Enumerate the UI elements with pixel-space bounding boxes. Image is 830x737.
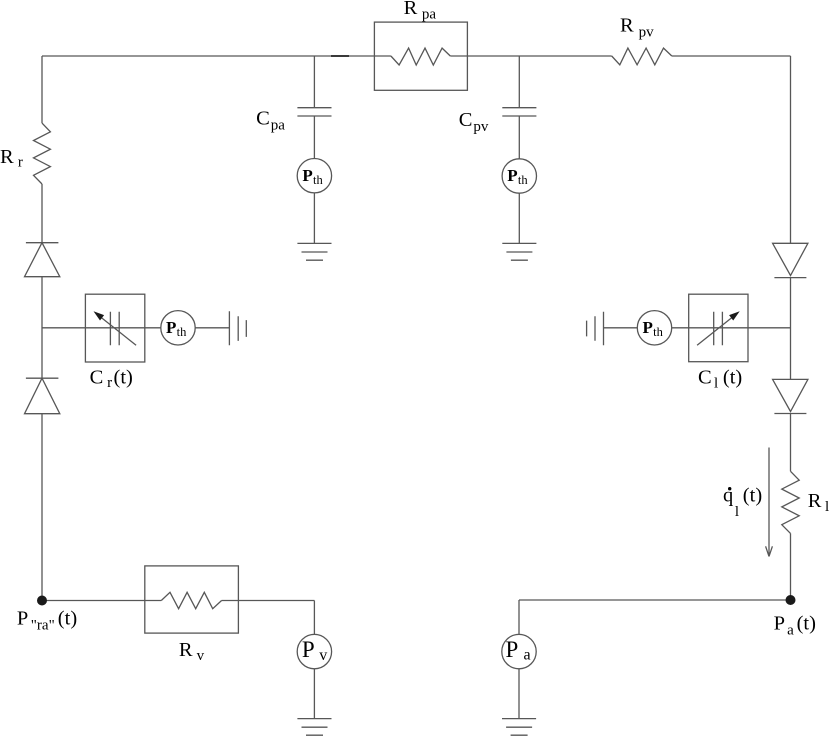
diode D3 triangle xyxy=(773,243,808,275)
label P_th inside left circle xyxy=(166,318,187,339)
box around R_pa xyxy=(374,22,467,90)
svg-text:l: l xyxy=(735,504,739,520)
svg-text:P: P xyxy=(506,637,519,662)
wire left vertical D1 to D2 xyxy=(41,277,43,379)
wire right vertical upper xyxy=(790,56,792,243)
svg-text:R: R xyxy=(808,490,822,512)
svg-text:R: R xyxy=(0,146,14,168)
wire C_r box to P_th xyxy=(145,327,161,329)
wire left vertical upper xyxy=(41,56,43,123)
svg-text:R: R xyxy=(620,15,634,37)
svg-text:P: P xyxy=(302,166,312,185)
wire overlap segment xyxy=(331,55,349,57)
resistor R_pv zigzag xyxy=(612,48,672,65)
svg-text:P: P xyxy=(17,608,28,630)
svg-text:(t): (t) xyxy=(114,367,133,389)
arrowhead of C_l arrow xyxy=(729,311,740,320)
source P_a circle xyxy=(502,634,536,668)
thorax wall symbol left xyxy=(229,311,246,345)
wire into R_v box xyxy=(145,600,162,602)
ground under left P_th xyxy=(297,243,331,260)
thorax wall symbol right xyxy=(587,312,604,346)
label R_l xyxy=(808,490,829,515)
wire bottom right horizontal xyxy=(519,599,791,601)
svg-text:P: P xyxy=(302,637,315,662)
wire C_pa to P_th xyxy=(313,116,315,159)
capacitor C_pv plates xyxy=(502,108,536,116)
wire C_pv to P_th xyxy=(518,116,520,159)
diode D4 triangle xyxy=(773,379,808,411)
svg-text:pa: pa xyxy=(271,117,286,133)
wire C_l box to right rail xyxy=(748,327,791,329)
wire right vertical to R_l xyxy=(790,414,792,472)
svg-text:P: P xyxy=(166,318,176,337)
arrow of variable capacitor C_l xyxy=(697,318,732,346)
arrow of variable capacitor C_r xyxy=(101,318,136,346)
label C_l(t) xyxy=(698,367,742,392)
wire P_th to C_l box xyxy=(672,327,689,329)
flow arrow q_l head xyxy=(766,546,773,556)
wire R_v to corner xyxy=(222,600,315,602)
svg-text:C: C xyxy=(698,367,712,389)
wire top middle xyxy=(450,55,611,57)
wire top left xyxy=(42,55,391,57)
resistor R_pa zigzag xyxy=(391,48,450,65)
label R_r xyxy=(0,146,23,171)
label C_pv xyxy=(459,109,489,135)
svg-text:th: th xyxy=(518,173,528,187)
source P_th circle (under C_pa) xyxy=(297,159,331,193)
wire P_th to ground xyxy=(313,193,315,244)
wire wall to right P_th xyxy=(604,327,638,329)
label C_pa xyxy=(256,108,285,134)
capacitor C_pa plates xyxy=(297,108,331,116)
diode D3 bar xyxy=(774,277,806,279)
svg-text:l: l xyxy=(825,499,829,515)
svg-text:th: th xyxy=(177,325,187,339)
wire P_a to ground xyxy=(518,669,520,719)
arrowhead of C_r arrow xyxy=(94,311,105,320)
svg-text:P: P xyxy=(774,613,785,635)
source P_th circle (under C_pv) xyxy=(502,159,536,193)
svg-text:v: v xyxy=(319,647,327,664)
flow arrow q_l line xyxy=(768,448,770,557)
svg-text:v: v xyxy=(197,648,205,664)
capacitor C_l plates xyxy=(714,312,723,345)
label P_a inside circle xyxy=(506,637,531,664)
ground under P_a xyxy=(502,719,536,736)
wire corner down to P_a xyxy=(518,600,520,634)
wire left branch to C_r box xyxy=(42,327,85,329)
resistor R_v zigzag xyxy=(161,592,221,608)
ground under P_v xyxy=(297,719,331,736)
wire P_th to ground xyxy=(518,193,520,243)
svg-text:C: C xyxy=(90,367,104,389)
box around C_l xyxy=(689,294,748,362)
source P_v circle xyxy=(297,634,331,668)
wire P_th to wall xyxy=(195,327,229,329)
svg-text:P: P xyxy=(507,166,517,185)
svg-text:C: C xyxy=(256,108,270,130)
label R_pv xyxy=(620,15,654,41)
label R_pa xyxy=(404,0,437,23)
svg-text:pa: pa xyxy=(422,7,437,23)
ground under right P_th xyxy=(502,243,536,260)
wire right vertical D3 to D4 xyxy=(790,278,792,380)
source P_th circle (right) xyxy=(637,311,671,345)
svg-text:R: R xyxy=(179,639,193,661)
label P_v inside circle xyxy=(302,637,327,664)
node P_a junction dot xyxy=(786,595,796,605)
svg-text:a: a xyxy=(787,623,794,639)
wire C_pa branch top xyxy=(313,56,315,108)
diode D4 bar xyxy=(774,413,806,415)
wire through C_r box xyxy=(85,327,144,329)
svg-text:C: C xyxy=(459,109,473,131)
resistor R_r zigzag xyxy=(34,123,51,184)
wire through C_l box xyxy=(689,327,748,329)
svg-text:"ra": "ra" xyxy=(31,617,55,633)
svg-text:r: r xyxy=(18,155,23,171)
label P_th inside right circle xyxy=(643,318,664,339)
svg-text:(t): (t) xyxy=(723,367,742,389)
wire left vertical below R_r xyxy=(41,184,43,243)
svg-text:(t): (t) xyxy=(743,485,762,507)
svg-text:a: a xyxy=(524,647,531,664)
label P_a(t) node name xyxy=(774,613,816,639)
wire C_pv branch top xyxy=(518,56,520,108)
svg-text:P: P xyxy=(643,318,653,337)
svg-text:pv: pv xyxy=(473,119,489,135)
svg-text:(t): (t) xyxy=(58,608,77,630)
node P_ra junction dot xyxy=(37,596,47,606)
wire bottom left node to R_v box xyxy=(42,600,145,602)
wire top right xyxy=(672,55,791,57)
label R_v xyxy=(179,639,205,664)
label q_l(t) with overdot xyxy=(723,485,762,521)
label P_"ra"(t) node name xyxy=(17,608,77,634)
diode D2 triangle xyxy=(25,378,60,414)
diode D2 bar xyxy=(26,377,59,379)
wire corner down to P_v xyxy=(313,601,315,635)
wire P_v to ground xyxy=(313,669,315,719)
svg-text:q: q xyxy=(723,485,733,507)
svg-text:r: r xyxy=(107,375,112,391)
capacitor C_r plates xyxy=(110,312,119,345)
wire R_l to node P_a xyxy=(790,533,792,600)
wire left vertical lower xyxy=(41,414,43,601)
diode D1 bar xyxy=(26,242,59,244)
svg-text:(t): (t) xyxy=(797,613,816,635)
svg-text:th: th xyxy=(313,173,323,187)
box around C_r xyxy=(85,294,144,362)
label P_th inside circle under C_pa xyxy=(302,166,323,187)
svg-text:th: th xyxy=(653,325,663,339)
label P_th inside circle under C_pv xyxy=(507,166,528,187)
svg-text:l: l xyxy=(714,376,718,392)
label C_r(t) xyxy=(90,367,133,392)
svg-text:pv: pv xyxy=(639,24,655,40)
resistor R_l zigzag xyxy=(782,471,799,533)
box around R_v xyxy=(145,566,239,633)
source P_th circle (left) xyxy=(161,311,195,345)
svg-text:R: R xyxy=(404,0,418,19)
diode D1 triangle xyxy=(25,243,60,277)
